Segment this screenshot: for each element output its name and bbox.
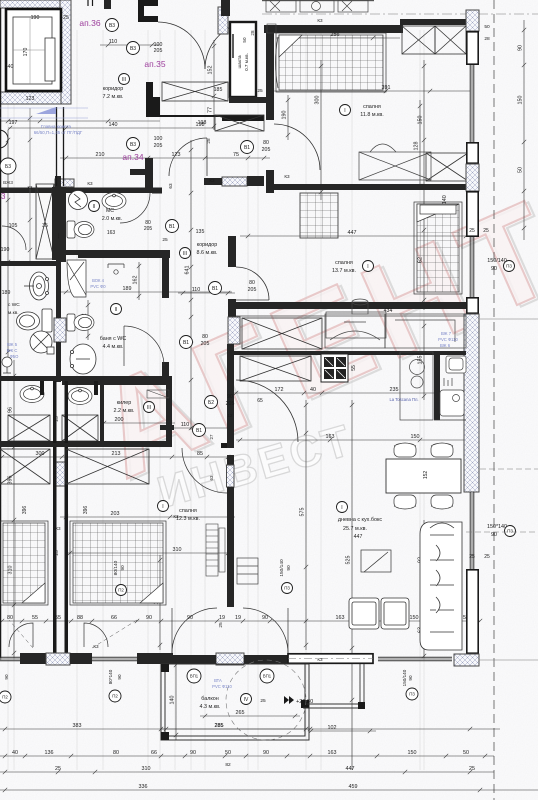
svg-text:90: 90 [117,674,122,680]
french door arc L [172,608,217,653]
bed 2 [414,202,462,294]
circle cut left edge [0,130,8,148]
vdim 152-cor [212,40,216,130]
svg-text:80/140: 80/140 [113,560,119,575]
door circle B1 kitchen [209,282,222,295]
svg-text:25: 25 [54,550,60,556]
dining table [386,459,461,493]
shaft inner lines [13,17,45,84]
vdim 63 [422,600,426,660]
stove 4 burners [321,354,348,382]
svg-text:7.2 м.кв.: 7.2 м.кв. [103,94,124,100]
wc bottom wall [62,250,170,255]
svg-text:82: 82 [225,762,231,768]
bath sink oval [70,344,96,374]
rwall block 4 [467,298,478,313]
svg-text:66: 66 [111,615,117,621]
top wall stub shahta [221,0,230,16]
svg-text:383: 383 [73,723,82,729]
circle VP1 a [187,669,201,683]
svg-text:ВП1: ВП1 [190,674,199,679]
shaft hatch frame bottom [0,92,61,104]
bottom wall centerline [288,658,373,660]
corner shower [67,260,86,297]
svg-text:150: 150 [418,116,424,125]
svg-text:50: 50 [225,750,231,756]
svg-text:170: 170 [23,48,29,57]
svg-text:шахта: шахта [237,55,242,69]
window w1 [470,65,474,142]
wall below shahta [229,97,266,103]
svg-text:В1: В1 [183,340,189,346]
dim ap34 210/123/75 [60,156,270,160]
svg-text:80*140: 80*140 [108,669,113,684]
elevator door slot [45,38,55,81]
dim kitchen 172/40/235 [232,391,470,395]
bedroom2 left wall b [228,299,236,317]
interapt wall low [56,262,61,318]
bedroom1 top wall right [400,19,468,25]
svg-text:25: 25 [483,228,489,234]
dashed property line [493,0,495,800]
hatch pier ap34wall [222,177,247,186]
svg-text:ВЖ 5: ВЖ 5 [7,342,18,347]
vdim left 105 [6,130,10,360]
shahta room [230,22,256,97]
svg-text:63: 63 [209,475,214,480]
svg-text:ВЖ С: ВЖ С [7,348,18,353]
x30 ticks [28,116,32,252]
dash-dot line top [262,13,538,15]
svg-text:447: 447 [346,766,355,772]
svg-text:55: 55 [32,615,38,621]
bottom wall right a [244,655,310,664]
svg-text:В1: В1 [196,428,202,434]
small bath shower [446,356,466,373]
svg-text:575: 575 [300,508,306,517]
dashed door lines [9,620,137,648]
bedroom3 right wall b [227,455,234,465]
dim 189-bath [60,290,232,294]
svg-text:75: 75 [233,152,239,158]
svg-text:162: 162 [133,276,139,285]
rwall hatch bottom [454,654,479,666]
bedroom2 bottom wall [234,302,466,309]
svg-text:213: 213 [112,451,121,457]
svg-text:163: 163 [336,615,345,621]
svg-text:90: 90 [263,750,269,756]
bottom wall left c [137,653,173,664]
lb1 basin [20,386,44,403]
svg-text:80: 80 [7,615,13,621]
svg-text:8.6 м.кв.: 8.6 м.кв. [197,250,218,256]
left shower circle [30,331,54,354]
svg-text:19: 19 [219,615,225,621]
ap34 wall notch [130,169,146,175]
killer right wall [166,381,172,443]
svg-text:447: 447 [348,230,357,236]
dim mid 620 [0,619,482,623]
svg-text:88: 88 [77,615,83,621]
svg-text:90: 90 [491,266,497,272]
door circle B3 c [127,138,140,151]
svg-text:К3: К3 [209,178,215,183]
svg-text:коридор: коридор [197,242,218,248]
svg-text:396: 396 [83,506,89,515]
svg-text:25: 25 [218,622,224,628]
bath right wall low [162,362,169,382]
svg-text:ВП1: ВП1 [263,674,272,679]
svg-text:50: 50 [242,37,247,43]
svg-text:66: 66 [151,750,157,756]
rwall hatch 1 [466,10,479,31]
door circle B1 a [241,141,254,154]
svg-text:285: 285 [215,723,224,729]
circle III corridor8 [180,248,191,259]
interapt wall mid [56,187,66,262]
wardrobe bedroom1 b [435,26,466,54]
svg-text:152: 152 [208,66,214,75]
svg-text:I: I [341,505,342,511]
svg-text:198: 198 [198,120,207,126]
svg-text:IV: IV [244,697,249,703]
svg-text:150: 150 [411,434,420,440]
boiler [69,191,88,210]
svg-text:балкон: балкон [201,696,219,702]
bottom window far left [0,657,20,661]
circle I bedroom1 [340,105,351,116]
svg-text:П2: П2 [2,695,8,700]
dim top-mid 140/198 [8,126,215,130]
bedroom1 top wall [264,25,403,33]
circle P2 a [0,691,11,703]
circle I bedroom2 [363,261,374,272]
shaft hatch frame top [0,0,68,8]
shaft outer wall [6,9,61,91]
svg-text:205: 205 [262,147,271,153]
svg-text:65: 65 [257,398,263,404]
svg-text:28: 28 [484,36,490,42]
bottom window R [378,657,452,661]
svg-text:П2: П2 [112,694,118,699]
svg-text:ВЖ 7: ВЖ 7 [441,331,452,336]
left bath sink [24,272,49,300]
svg-text:80: 80 [249,280,255,286]
svg-text:123: 123 [26,96,35,102]
svg-text:90: 90 [120,565,126,571]
hatch pier shaft top [218,7,228,34]
svg-text:К3: К3 [317,657,323,662]
bedroom3 wall hatch pier [227,465,235,487]
svg-text:152: 152 [423,471,429,480]
level mark [284,696,313,705]
svg-text:150: 150 [410,615,419,621]
bedroom2 left wall [228,236,236,267]
svg-text:200: 200 [115,417,124,423]
living-corridor wall [227,344,234,428]
vdim 525 [350,400,354,770]
svg-text:80: 80 [113,750,119,756]
svg-text:434: 434 [384,308,393,314]
rwall block 2 [467,143,478,163]
lb2 basin [68,388,92,405]
svg-text:К3: К3 [87,181,93,186]
interapt wall low2 [56,342,61,382]
svg-text:ВОК 4: ВОК 4 [92,278,105,283]
svg-text:447: 447 [354,534,363,540]
svg-text:50: 50 [463,750,469,756]
dim bottom 336/459 [0,788,538,792]
left room bottom wall [0,261,58,266]
svg-text:85: 85 [197,451,203,457]
svg-text:3: 3 [1,192,6,201]
small bath sink [440,390,464,416]
window w3 [470,492,474,569]
dim 197/140 [0,119,160,123]
svg-text:525: 525 [346,556,352,565]
vdim 170 shaft [28,20,32,90]
svg-text:205: 205 [154,48,163,54]
svg-text:189: 189 [2,290,11,296]
svg-text:150/140: 150/140 [402,669,407,686]
dim 102 [309,729,376,733]
circle P3 w3 [505,526,516,537]
left bath toilet [17,309,53,332]
ap35 entry arc [205,22,252,69]
svg-text:310: 310 [142,766,151,772]
svg-text:396: 396 [22,506,28,515]
vdim 92-sofa [422,520,426,600]
balcony dashed circle [226,660,306,740]
wardrobe bedroom1 a [402,26,435,54]
svg-text:90: 90 [408,675,413,681]
door circle B3 a [106,19,119,32]
circle VP1 b [260,669,274,683]
circle III corridor7 [119,74,130,85]
svg-text:III: III [122,77,126,83]
svg-text:190: 190 [1,247,10,253]
svg-text:150*140: 150*140 [487,524,507,530]
bottom wall left b [70,653,92,664]
bath bottom wall [62,378,169,385]
bedroom3 right wall a [227,425,234,448]
vdim 232 [86,300,90,340]
corridor wall notch [221,443,227,448]
svg-text:77: 77 [208,107,214,113]
bottom hatch pier C [216,653,244,665]
svg-text:210: 210 [96,152,105,158]
interapt lower wall [53,447,68,653]
bedroom1 left wall [266,25,274,120]
svg-text:123: 123 [172,152,181,158]
svg-text:50: 50 [518,167,524,173]
svg-text:110: 110 [192,287,201,293]
dim bottom 383/285 [0,727,500,731]
ext line right 532 [466,531,538,533]
svg-text:2.0 м.кв.: 2.0 м.кв. [102,216,122,222]
circle II bath [111,304,122,315]
svg-text:641: 641 [185,266,191,275]
vdim 30-bed [319,60,323,200]
svg-text:12: 12 [228,413,233,418]
svg-text:25.7 м.кв.: 25.7 м.кв. [343,526,367,532]
entry door arc ap36 [158,22,205,69]
svg-text:205: 205 [226,401,235,407]
br3 door arc [182,448,227,493]
left edge wall [0,8,1,660]
kitchen upper cabinet [242,318,322,349]
svg-text:I: I [344,108,345,114]
left door arc [2,226,26,250]
wall stub ap34 b [247,176,264,186]
bottom hatch pier L [46,653,70,665]
svg-text:ВЖ3: ВЖ3 [3,180,13,185]
svg-text:35: 35 [42,223,48,229]
bath toilet [67,314,94,331]
svg-text:Главна кюнета: Главна кюнета [41,124,71,129]
svg-text:90: 90 [4,674,9,680]
svg-text:В3: В3 [130,142,136,148]
door arcs bottom left rooms [9,623,108,647]
wc door stub [152,188,162,194]
top wall stub A [88,0,93,6]
svg-text:300: 300 [315,96,321,105]
svg-text:163: 163 [107,230,116,236]
rwall hatch 2 [466,164,479,191]
wall below wc-sink row [62,189,122,193]
svg-text:205: 205 [154,143,163,149]
svg-text:спалня: спалня [363,104,381,110]
svg-text:105: 105 [9,223,18,229]
svg-text:II: II [93,204,96,210]
svg-text:135: 135 [196,229,205,235]
dim 285 balc [162,727,310,731]
row bottom wall [0,441,172,447]
svg-text:с WC: с WC [8,302,20,308]
sewer triangle [36,107,56,114]
svg-text:66/50,П=1,35 от ПГ/ПДГ: 66/50,П=1,35 от ПГ/ПДГ [34,130,83,135]
dim killer 200 [100,421,175,425]
lb vert stubs [40,381,98,395]
circle P3 b [406,688,418,700]
svg-text:П2: П2 [118,588,124,593]
door circle B1 wc [166,220,179,233]
circle I living [337,502,348,513]
svg-text:150/140: 150/140 [279,559,285,577]
wardrobe 185 ap35 [162,82,228,101]
svg-text:63: 63 [168,183,173,189]
circle IV balcony [241,694,252,705]
vdim 575 [304,400,308,650]
upper apt counter edge [262,0,374,1]
balcony corner marks [161,664,309,740]
circle P3 balc [282,583,293,594]
kitchen mid wall [234,351,466,355]
radiator corridor [147,390,169,398]
ext line right bottom [479,659,538,661]
circle II wc [89,201,100,212]
svg-text:В1: В1 [212,286,218,292]
svg-text:Ф5О: Ф5О [10,354,20,359]
dim bed2 310 [65,551,232,555]
svg-text:PVC Ф110: PVC Ф110 [212,684,232,689]
svg-text:150: 150 [518,96,524,105]
svg-text:К3: К3 [55,526,61,531]
svg-text:баня с WC: баня с WC [100,336,127,342]
rwall block 1 [467,32,478,64]
svg-text:13.7 м.кв.: 13.7 м.кв. [332,268,356,274]
svg-text:197: 197 [9,120,18,126]
bath top wall partial [78,253,170,258]
wardrobe left low [0,449,50,484]
vdim 641 [189,140,193,430]
ap34 entry arc [169,138,207,176]
bath door arc [124,326,164,366]
coffee table [361,550,391,572]
dim 391 [266,89,470,93]
window w2 [470,237,474,297]
svg-text:коридор: коридор [103,86,124,92]
corridor wall niche [146,82,160,115]
svg-text:150: 150 [408,750,417,756]
wc top wall [0,188,152,194]
svg-text:336: 336 [139,784,148,790]
circle B3 shahta [242,22,252,32]
french door arc R [243,608,288,653]
wc toilet [67,221,94,238]
svg-text:80: 80 [202,334,208,340]
interapt hatch pier [54,318,66,342]
wc sink [102,193,126,210]
rwall block 3 [467,192,478,236]
svg-text:ап.35: ап.35 [144,59,165,69]
svg-text:4.4 м.кв.: 4.4 м.кв. [103,344,124,350]
interapt wall bathrow [53,381,68,443]
svg-text:310: 310 [173,547,182,553]
svg-text:ВЖ 6: ВЖ 6 [440,343,451,348]
hatch pier kitchen [228,317,240,344]
svg-text:спалня: спалня [179,508,197,514]
kitchen right counter [385,314,466,348]
svg-text:190: 190 [282,111,288,120]
svg-text:ап.36: ап.36 [79,18,100,28]
lb2 cabinet [62,415,98,441]
bottom wall right b outlined [288,654,373,664]
svg-text:128: 128 [414,142,420,151]
vdim 140-balc [174,660,178,740]
balcony2 outline [303,664,364,708]
svg-text:55: 55 [351,365,357,371]
rwall block 5 [467,570,478,653]
balcony outline [161,664,309,740]
svg-text:110: 110 [181,422,190,428]
kitchen counter line [236,315,466,317]
svg-text:205: 205 [144,226,153,232]
svg-text:25: 25 [63,15,69,21]
wall stub ap34 a [204,178,222,185]
top corridor L-wall [138,0,158,22]
svg-text:0.7 м.кв.: 0.7 м.кв. [244,53,249,71]
svg-text:I: I [162,504,163,510]
door circle B3 b [127,42,140,55]
vdim 143-left [158,555,162,650]
svg-text:III: III [147,405,151,411]
svg-text:189: 189 [123,286,132,292]
left wardrobe tall [36,184,54,259]
svg-text:25: 25 [257,88,263,94]
svg-text:102: 102 [328,725,337,731]
small bath wall [434,352,440,420]
